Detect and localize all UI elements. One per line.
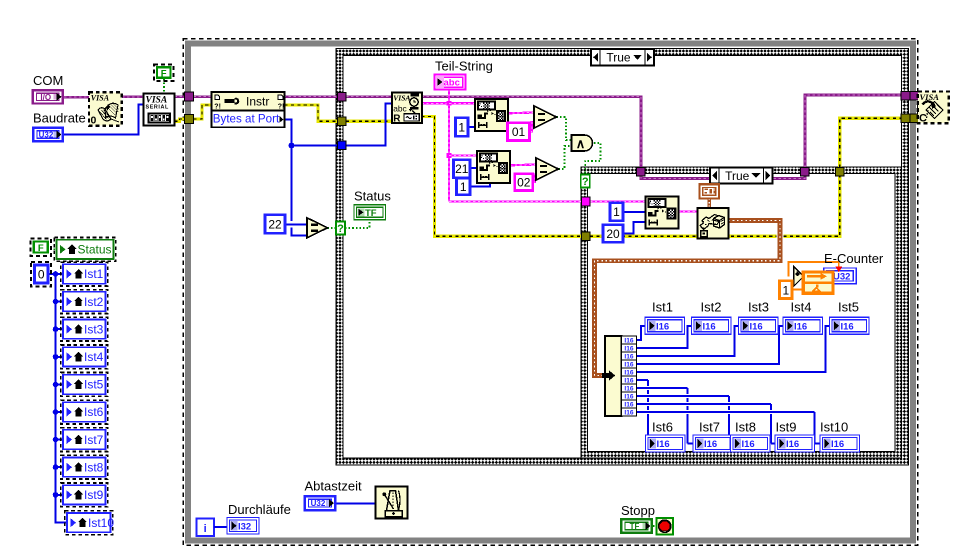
index array output cell 5 (I16) xyxy=(622,368,637,376)
wire unbundle element 9 to Ist9 xyxy=(637,403,772,405)
wire unbundle element 2 to Ist2 xyxy=(637,326,692,348)
svg-text:I16: I16 xyxy=(624,409,633,416)
svg-text:?: ? xyxy=(582,176,589,188)
wire constant 1 to subset2 length xyxy=(470,183,490,187)
svg-text:?: ? xyxy=(337,223,344,235)
string subset function 1 xyxy=(475,99,508,131)
wire VISA resource: configure to VISA serial xyxy=(122,96,144,99)
tunnel loop-left VISA resource xyxy=(185,92,194,101)
svg-text:C: C xyxy=(919,113,927,125)
junction local Ist5 xyxy=(53,382,59,388)
svg-text:I16: I16 xyxy=(704,439,717,450)
svg-text:1: 1 xyxy=(613,205,620,219)
wire string: junction to inner case tunnel xyxy=(449,200,582,202)
wire unbundle element 1 to Ist1 xyxy=(637,326,646,340)
wire boolean equal to case selector xyxy=(328,227,337,229)
control COM I/O xyxy=(33,90,63,103)
wire string subset3 to type cast xyxy=(678,210,698,212)
svg-text:abc: abc xyxy=(393,104,407,114)
indicator Durchlaeufe I32 xyxy=(227,518,259,535)
outer case structure border xyxy=(336,49,909,466)
VISA Close icon xyxy=(918,92,949,125)
tunnel inner-top error out xyxy=(835,167,844,176)
case selector terminal ? xyxy=(336,222,345,235)
boolean constant F (left) xyxy=(31,238,52,256)
loop condition terminal (stop) xyxy=(657,518,674,535)
indicator Ist7 I16 xyxy=(693,435,733,452)
local variable Ist6 xyxy=(61,400,108,424)
svg-text:?!: ?! xyxy=(278,104,285,111)
tunnel inner-left string xyxy=(581,197,590,206)
wire unbundle element 4 to Ist4 xyxy=(637,326,784,364)
svg-text:Ist2: Ist2 xyxy=(701,300,722,315)
svg-text:Ist10: Ist10 xyxy=(820,420,848,435)
wire error: VISA Read down and right to inner case tunnel xyxy=(422,117,582,237)
svg-text:R: R xyxy=(393,113,401,124)
wire baudrate U32 to VISA serial xyxy=(64,105,144,135)
wire boolean Stopp to loop condition xyxy=(653,525,657,527)
tunnel loop-left error xyxy=(185,114,194,123)
red coercion arrow on E-Counter xyxy=(835,267,842,273)
tunnel inner-top VISA resource out xyxy=(801,167,810,176)
svg-text:02: 02 xyxy=(517,176,531,190)
tunnel loop-right VISA resource xyxy=(910,92,919,101)
type cast function xyxy=(698,208,729,239)
numeric constant 22 xyxy=(265,215,285,233)
wire constant 22 to equal xyxy=(285,223,307,225)
svg-text:Ist1: Ist1 xyxy=(84,267,104,281)
index array output cell 4 (I16) xyxy=(622,360,637,368)
svg-text:i: i xyxy=(204,523,207,535)
svg-text:VISA: VISA xyxy=(393,94,410,103)
svg-text:Baudrate: Baudrate xyxy=(33,111,86,126)
wire string to subset 2 xyxy=(449,154,477,156)
wire string subset2 to equal2 xyxy=(510,163,536,166)
svg-text:E-Counter: E-Counter xyxy=(824,251,884,266)
junction local Ist6 xyxy=(53,409,59,415)
wire string: VISA Read output to junction xyxy=(422,102,450,104)
VISA Configure Serial Port icon xyxy=(89,92,122,126)
svg-text:I16: I16 xyxy=(657,439,670,450)
wire type constant stub xyxy=(708,199,711,209)
svg-text:I16: I16 xyxy=(624,361,633,368)
wire string to subset 1 xyxy=(449,102,475,104)
case selector label True (inner) xyxy=(710,168,773,184)
svg-text:∧: ∧ xyxy=(576,136,586,151)
wire boolean case selector to Status indicator xyxy=(345,220,370,229)
wire error: VISA serial to loop tunnel xyxy=(175,119,185,121)
wire unbundle element 5 to Ist5 xyxy=(637,326,830,372)
junction local Ist8 xyxy=(53,464,59,470)
svg-text:Ist9: Ist9 xyxy=(776,420,797,435)
svg-text:I16: I16 xyxy=(624,345,633,352)
svg-text:21: 21 xyxy=(455,162,469,176)
wait ms metronome icon xyxy=(376,487,408,519)
svg-text:Ist7: Ist7 xyxy=(84,433,104,447)
string junction B xyxy=(447,153,452,158)
wire error: case tunnel to VISA Read xyxy=(346,120,392,123)
svg-text:Ist1: Ist1 xyxy=(652,300,673,315)
numeric constant 1 (orange, feedback initializer) xyxy=(780,281,793,299)
local variable Status xyxy=(54,238,115,262)
svg-text:TF: TF xyxy=(630,522,640,531)
svg-text:?!: ?! xyxy=(214,104,221,111)
wire boolean AND to inner case selector xyxy=(585,143,600,175)
svg-text:True: True xyxy=(725,169,750,183)
svg-text:Ist3: Ist3 xyxy=(748,300,769,315)
svg-text:Ist2: Ist2 xyxy=(84,295,104,309)
tunnel case-left VISA resource xyxy=(337,92,346,101)
wire string subset1 to equal1 xyxy=(508,111,535,114)
wire i to Durchlaeufe xyxy=(214,526,227,528)
indicator Ist9 I16 xyxy=(775,435,815,452)
feedback node xyxy=(803,272,833,293)
indicator Ist10 I16 xyxy=(820,435,860,452)
indicator Ist3 I16 xyxy=(739,317,779,334)
local variable Ist10 xyxy=(65,511,113,535)
string subset function 2 xyxy=(477,151,510,183)
wire constant 1 to subset1 xyxy=(468,126,476,128)
tunnel case-right VISA resource xyxy=(901,92,910,101)
control Abtastzeit U32 xyxy=(305,496,336,510)
svg-text:Teil-String: Teil-String xyxy=(435,59,493,74)
equal? comparison (bytes) xyxy=(307,218,328,238)
svg-text:Instr: Instr xyxy=(246,95,269,109)
svg-text:Durchläufe: Durchläufe xyxy=(228,502,291,517)
svg-text:0: 0 xyxy=(91,115,97,127)
local variable Ist2 xyxy=(61,290,108,314)
numeric constant 0 xyxy=(31,262,51,287)
svg-text:Ist3: Ist3 xyxy=(84,322,104,336)
wire string constant 02 to equal2 xyxy=(533,175,537,183)
svg-text:I16: I16 xyxy=(786,439,799,450)
local variable Ist9 xyxy=(61,483,108,507)
wire VISA resource: loop tunnel to case tunnel (behind property node) xyxy=(194,95,338,98)
local variable Ist3 xyxy=(61,317,108,341)
wire orange counter loop xyxy=(789,262,839,277)
svg-text:1: 1 xyxy=(458,120,465,134)
junction local Ist2 xyxy=(53,299,59,305)
local variable Ist1 xyxy=(61,262,108,286)
svg-text:COM: COM xyxy=(33,73,63,88)
iteration terminal i xyxy=(197,519,215,537)
svg-text:01: 01 xyxy=(512,125,526,139)
junction local Ist4 xyxy=(53,354,59,360)
junction local Ist9 xyxy=(53,492,59,498)
wire unbundle element 7 to Ist7 xyxy=(637,387,688,389)
wire error: loop tunnel to property node xyxy=(194,105,212,119)
svg-text:I16: I16 xyxy=(624,353,633,360)
svg-text:Ist10: Ist10 xyxy=(88,516,114,530)
wire orange 1 to feedback node initializer xyxy=(793,289,802,291)
wire VISA resource inside inner case to output tunnel xyxy=(641,168,805,179)
svg-text:Bytes at Port: Bytes at Port xyxy=(213,112,280,125)
wire unbundle element 8 to Ist8 xyxy=(637,395,730,397)
equal? comparison 1 xyxy=(534,106,557,128)
wire constant 21 to subset2 xyxy=(470,167,478,169)
index array output cell 7 (I16) xyxy=(622,384,637,392)
property node Instr / Bytes at Port xyxy=(212,92,285,127)
local variable Ist8 xyxy=(61,455,108,479)
svg-text:I/O: I/O xyxy=(40,93,51,102)
svg-text:I16: I16 xyxy=(794,321,807,332)
wire Abtastzeit to wait xyxy=(337,503,376,505)
string subset function 3 xyxy=(646,197,679,229)
input arrow into index array xyxy=(602,370,615,380)
tunnel inner-left error xyxy=(581,232,590,241)
svg-text:TF: TF xyxy=(365,208,377,219)
while loop border (selected, marching ants) xyxy=(183,39,918,546)
svg-text:U32: U32 xyxy=(39,130,54,139)
index array output cell 1 (I16) xyxy=(622,336,637,344)
svg-text:I16: I16 xyxy=(624,393,633,400)
svg-text:Ist5: Ist5 xyxy=(84,378,104,392)
index array output cell 10 (I16) xyxy=(622,408,637,416)
junction local Ist3 xyxy=(53,326,59,332)
wire bytes-at-port branch down to equal (gap at 22 wire crossing) xyxy=(291,146,293,221)
wire VISA resource: serial to loop tunnel xyxy=(175,95,185,98)
svg-text:Ist6: Ist6 xyxy=(84,405,104,419)
wire unbundle element 3 to Ist3 xyxy=(637,326,739,356)
wire error: property node to case tunnel xyxy=(285,105,338,121)
junction bytes-at-port xyxy=(289,143,295,149)
wire error inside inner case (gap at brown crossing) xyxy=(590,235,777,238)
wire bytes-at-port to VISA Read byte count xyxy=(285,120,338,146)
svg-text:F: F xyxy=(161,68,167,79)
svg-text:VISA: VISA xyxy=(91,93,110,102)
svg-text:I16: I16 xyxy=(656,321,669,332)
svg-text:Ist4: Ist4 xyxy=(84,350,104,364)
wire error: inner case tunnel up to loop edge / VISA Close xyxy=(840,118,902,167)
wire constant 1 to subset3 xyxy=(623,211,646,213)
tunnel case-left error xyxy=(337,117,346,126)
svg-text:Abtastzeit: Abtastzeit xyxy=(305,479,362,494)
wire unbundle element 6 to Ist6 xyxy=(637,379,649,381)
numeric constant 1 (subset2 length) xyxy=(457,178,471,195)
VISA Serial icon xyxy=(144,94,175,126)
tunnel case-left byte count xyxy=(337,141,346,150)
svg-text:I16: I16 xyxy=(742,439,755,450)
inner case structure border xyxy=(581,167,902,458)
svg-text:I16: I16 xyxy=(703,321,716,332)
svg-text:Ist8: Ist8 xyxy=(84,460,104,474)
svg-text:I16: I16 xyxy=(624,401,633,408)
junction local Ist7 xyxy=(53,437,59,443)
svg-text:abc: abc xyxy=(444,78,460,89)
wire unbundle element 10 to Ist10 xyxy=(637,411,815,413)
svg-text:U32: U32 xyxy=(311,499,326,508)
svg-text:F: F xyxy=(38,243,44,254)
local variable Ist4 xyxy=(61,345,108,369)
numeric constant 1 (subset3 offset) xyxy=(610,203,623,221)
wire boolean F to Status local xyxy=(50,248,57,250)
svg-text:Ist6: Ist6 xyxy=(652,420,673,435)
local variable Ist7 xyxy=(61,428,108,452)
case selector label True (outer) xyxy=(591,49,654,66)
svg-text:Ist9: Ist9 xyxy=(84,488,104,502)
equal? comparison 2 xyxy=(536,158,559,180)
type constant (I16 array type) xyxy=(700,184,720,198)
string constant 01 xyxy=(508,123,530,141)
tunnel loop-right error xyxy=(910,114,919,123)
indicator E-Counter U32 xyxy=(824,268,856,284)
svg-text:I16: I16 xyxy=(624,369,633,376)
wire 0 constant to local variables chain xyxy=(48,273,63,275)
indicator Status TF xyxy=(354,205,386,220)
svg-text:Status: Status xyxy=(354,189,391,204)
wire VISA resource: inner case tunnel up to loop edge and VISA Close xyxy=(805,95,902,168)
svg-text:I16: I16 xyxy=(841,321,854,332)
svg-text:Ist4: Ist4 xyxy=(791,300,812,315)
indicator Ist1 I16 xyxy=(645,317,685,334)
svg-text:I16: I16 xyxy=(750,321,763,332)
svg-text:20: 20 xyxy=(606,227,620,241)
svg-text:Stopp: Stopp xyxy=(621,503,655,518)
wire boolean equal1 to AND xyxy=(557,117,572,140)
index array output cell 2 (I16) xyxy=(622,344,637,352)
svg-text:I16: I16 xyxy=(624,385,633,392)
svg-text:Ist5: Ist5 xyxy=(838,300,859,315)
inner case selector terminal ? xyxy=(581,175,590,188)
svg-text:I32: I32 xyxy=(238,521,251,532)
wire VISA resource: case tunnel to VISA Read xyxy=(346,95,392,98)
svg-text:22: 22 xyxy=(268,217,282,231)
numeric constant 1 (subset1 offset) xyxy=(456,118,469,137)
wire constant 20 to subset3 xyxy=(623,222,646,234)
control Baudrate U32 xyxy=(33,128,63,142)
svg-text:Status: Status xyxy=(78,243,112,257)
wire boolean equal2 to AND xyxy=(559,146,572,169)
indicator Ist5 I16 xyxy=(830,317,870,334)
index array block (10 outputs) xyxy=(605,336,622,416)
svg-text:True: True xyxy=(606,51,631,65)
svg-text:U32: U32 xyxy=(833,272,850,283)
AND gate xyxy=(572,135,593,151)
increment +1 node xyxy=(794,266,804,286)
indicator Teil-String (string abc) xyxy=(435,75,466,90)
tunnel case-right error xyxy=(901,114,910,123)
index array output cell 9 (I16) xyxy=(622,400,637,408)
svg-text:1: 1 xyxy=(782,284,789,298)
numeric constant 20 (subset3 length) xyxy=(603,225,623,243)
index array output cell 6 (I16) xyxy=(622,376,637,384)
VISA Read icon xyxy=(392,93,422,125)
svg-text:1: 1 xyxy=(460,180,467,194)
junction local Ist1 xyxy=(53,271,59,277)
wire byte array: type cast to unbundle xyxy=(595,221,781,376)
svg-text:Ist8: Ist8 xyxy=(735,420,756,435)
svg-text:I16: I16 xyxy=(624,377,633,384)
indicator Ist4 I16 xyxy=(783,317,823,334)
wire boolean: F constant to VISA serial xyxy=(163,79,165,94)
svg-text:0: 0 xyxy=(38,267,45,281)
indicator Ist2 I16 xyxy=(692,317,732,334)
string junction A xyxy=(447,101,452,106)
numeric constant 21 (subset2 offset) xyxy=(454,160,471,178)
svg-text:SERIAL: SERIAL xyxy=(146,105,169,111)
svg-text:Ist7: Ist7 xyxy=(699,420,720,435)
wire string: Teil-String stub and vertical run xyxy=(448,89,450,202)
indicator Ist8 I16 xyxy=(731,435,771,452)
wire string constant 01 to equal1 xyxy=(530,122,535,132)
indicator Ist6 I16 xyxy=(646,435,686,452)
svg-text:I16: I16 xyxy=(624,337,633,344)
tunnel inner-top VISA resource in xyxy=(637,167,646,176)
wire VISA resource: VISA Read to inner case top tunnel xyxy=(422,97,642,168)
wire VISA resource: COM control to VISA configure xyxy=(64,96,89,99)
index array output cell 3 (I16) xyxy=(622,352,637,360)
boolean constant F (top) xyxy=(154,64,174,81)
svg-text:I16: I16 xyxy=(831,439,844,450)
string constant 02 xyxy=(515,174,533,191)
wire string: inner tunnel to subset 3 xyxy=(590,200,646,202)
index array output cell 8 (I16) xyxy=(622,392,637,400)
control Stopp TF xyxy=(621,519,652,533)
local variable Ist5 xyxy=(61,373,108,397)
